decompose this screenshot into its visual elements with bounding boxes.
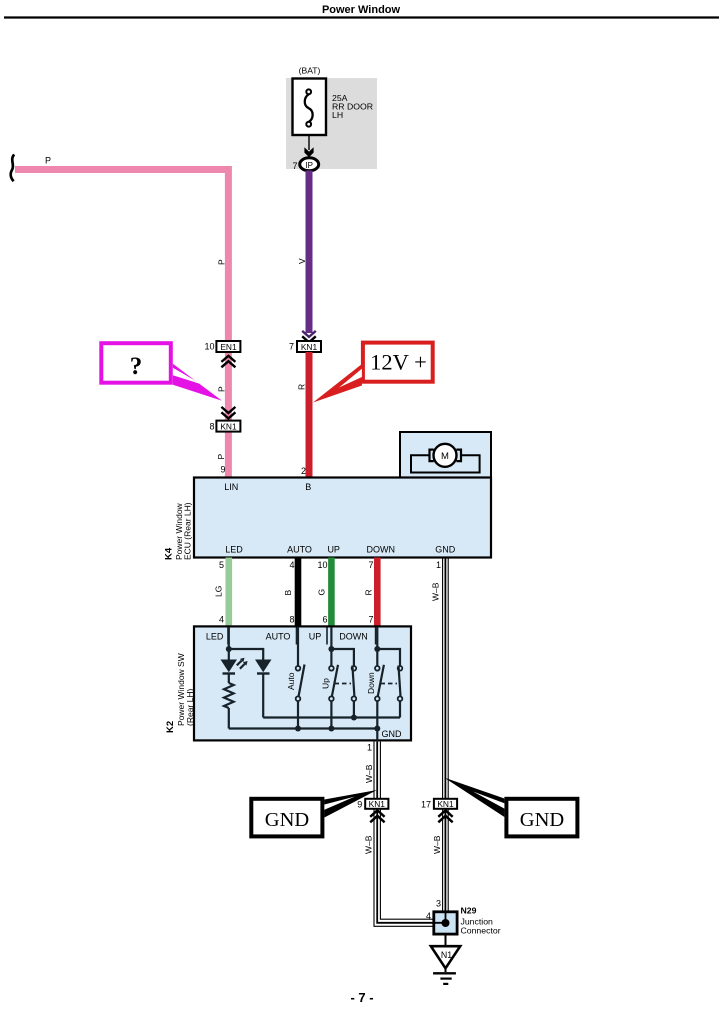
UP switch main bbox=[329, 666, 334, 671]
wire: fuse to IP connector bbox=[308, 135, 310, 150]
DOWN mechanical link (dashed) bbox=[381, 683, 398, 685]
node: DOWN to ground bus bbox=[374, 726, 380, 732]
svg-text:7: 7 bbox=[368, 560, 373, 570]
svg-text:3: 3 bbox=[436, 899, 441, 909]
svg-text:P: P bbox=[217, 259, 227, 265]
svg-text:GND: GND bbox=[382, 729, 403, 739]
N29 internal stripe wires bbox=[434, 912, 446, 923]
ground bus (line B) bbox=[229, 727, 377, 729]
node: LED branch junction bbox=[226, 646, 232, 652]
fuse element bbox=[306, 89, 311, 94]
connector chevrons below KN1 (left) bbox=[370, 810, 384, 822]
svg-text:K4: K4 bbox=[164, 547, 175, 560]
svg-text:R: R bbox=[297, 384, 307, 390]
svg-text:9: 9 bbox=[357, 800, 362, 810]
DOWN switch main bbox=[375, 666, 380, 671]
wire LED2 down to illumination bus bbox=[262, 674, 264, 718]
wire V (violet) from IP to KN1 bbox=[306, 171, 313, 334]
wire P (pink) horizontal + vertical run bbox=[15, 170, 228, 478]
motor brushes bbox=[430, 450, 434, 462]
LED D1 bbox=[221, 660, 238, 673]
arrow into IP connector bbox=[304, 147, 313, 157]
svg-text:P: P bbox=[216, 454, 226, 460]
callout box "12V +" (red) bbox=[363, 343, 433, 382]
svg-text:LIN: LIN bbox=[224, 482, 238, 492]
svg-text:7: 7 bbox=[292, 161, 297, 171]
wire resistor to bus bbox=[228, 708, 230, 729]
wire R (red) from KN1 to K4 pin 2 bbox=[306, 352, 313, 478]
svg-text:?: ? bbox=[130, 353, 143, 380]
svg-text:6: 6 bbox=[322, 615, 327, 625]
node: UP second contact to illumination bus bbox=[351, 715, 357, 721]
illumination bus (line A) bbox=[263, 716, 400, 718]
svg-text:4: 4 bbox=[219, 615, 224, 625]
callout box GND (left) bbox=[251, 799, 322, 837]
motor box (window motor) bbox=[400, 432, 491, 479]
node: N29 junction bbox=[442, 919, 450, 927]
svg-text:LED: LED bbox=[206, 632, 224, 642]
svg-text:W–B: W–B bbox=[363, 835, 373, 854]
svg-text:R: R bbox=[364, 589, 374, 595]
svg-text:GND: GND bbox=[435, 545, 456, 555]
svg-text:Auto: Auto bbox=[286, 672, 296, 690]
callout leader (left GND) bbox=[324, 790, 377, 818]
svg-text:Power Window: Power Window bbox=[322, 4, 401, 16]
switch K2 box bbox=[194, 626, 411, 740]
svg-text:AUTO: AUTO bbox=[287, 545, 312, 555]
DOWN switch second contact bbox=[398, 666, 403, 671]
connector chevrons below EN1 bbox=[221, 356, 235, 368]
svg-text:B: B bbox=[305, 482, 311, 492]
svg-text:1: 1 bbox=[367, 743, 372, 753]
junction connector N29 bbox=[434, 912, 457, 934]
UP second contact branch bbox=[331, 649, 354, 666]
wire W-B (white-black) from K4 GND pin1 down to KN1/N29 bbox=[442, 558, 444, 912]
K2 internal wire: branch to LED2 bbox=[229, 649, 263, 660]
connector IP (oval) bbox=[300, 158, 319, 171]
svg-text:EN1: EN1 bbox=[220, 342, 237, 352]
svg-text:LH: LH bbox=[332, 110, 343, 120]
svg-text:UP: UP bbox=[309, 632, 322, 642]
svg-text:17: 17 bbox=[421, 800, 431, 810]
motor wiring loop bbox=[411, 455, 480, 472]
svg-text:1: 1 bbox=[436, 560, 441, 570]
svg-text:KN1: KN1 bbox=[220, 421, 237, 431]
DOWN second contact branch bbox=[377, 649, 400, 666]
wire LED1 to resistor bbox=[228, 674, 230, 684]
fuse block background (IP junction block shading) bbox=[286, 78, 377, 169]
svg-text:10: 10 bbox=[317, 560, 327, 570]
svg-text:W–B: W–B bbox=[364, 764, 374, 783]
AUTO switch bbox=[296, 666, 301, 671]
callout box GND (right) bbox=[506, 799, 577, 837]
callout leader (right GND) bbox=[444, 778, 504, 818]
svg-text:M: M bbox=[441, 451, 449, 462]
node: UP to ground bus bbox=[328, 726, 334, 732]
node: DOWN branch bbox=[374, 646, 380, 652]
svg-text:7: 7 bbox=[289, 342, 294, 352]
svg-text:W–B: W–B bbox=[432, 835, 442, 854]
wire G (green) K4 pin10 to K2 pin6 bbox=[328, 558, 335, 627]
wire break squiggle at left margin bbox=[11, 155, 15, 182]
svg-text:K2: K2 bbox=[165, 721, 176, 733]
svg-text:KN1: KN1 bbox=[437, 799, 454, 809]
wire W-B from K2 GND to N29 pin 4 bbox=[374, 742, 434, 927]
svg-text:DOWN: DOWN bbox=[339, 632, 368, 642]
svg-text:12V +: 12V + bbox=[370, 350, 427, 375]
svg-text:KN1: KN1 bbox=[369, 799, 386, 809]
AUTO switch column wire bbox=[297, 627, 299, 666]
svg-text:AUTO: AUTO bbox=[266, 632, 291, 642]
svg-text:GND: GND bbox=[520, 809, 564, 831]
svg-text:KN1: KN1 bbox=[301, 342, 318, 352]
ground symbol bbox=[445, 968, 447, 972]
node: UP branch bbox=[328, 646, 334, 652]
svg-text:LED: LED bbox=[225, 545, 243, 555]
ECU K4 box bbox=[194, 478, 491, 558]
svg-text:G: G bbox=[317, 589, 327, 596]
K2 internal wire: LED column bbox=[228, 627, 230, 660]
wire N29 to ground point bbox=[445, 934, 447, 947]
svg-text:V: V bbox=[297, 258, 307, 264]
svg-text:Down: Down bbox=[366, 672, 376, 694]
connector chevrons above KN1 (pink) bbox=[221, 407, 235, 419]
svg-text:P: P bbox=[217, 386, 227, 392]
K2 internal GND wire bbox=[376, 729, 378, 741]
LED D2 bbox=[255, 660, 272, 673]
svg-text:P: P bbox=[45, 156, 51, 166]
svg-text:ECU (Rear LH): ECU (Rear LH) bbox=[183, 502, 193, 560]
svg-text:N1: N1 bbox=[441, 950, 452, 960]
wire LG (light green) K4 pin5 to K2 pin4 bbox=[226, 558, 233, 627]
svg-text:9: 9 bbox=[220, 465, 225, 475]
callout box "?" (magenta) bbox=[101, 343, 171, 383]
K2 cell divider lines bbox=[228, 628, 376, 645]
svg-text:7: 7 bbox=[368, 615, 373, 625]
svg-text:LG: LG bbox=[214, 586, 224, 597]
svg-text:(BAT): (BAT) bbox=[299, 66, 321, 76]
svg-text:IP: IP bbox=[305, 161, 313, 170]
svg-text:DOWN: DOWN bbox=[367, 545, 396, 555]
svg-text:8: 8 bbox=[209, 422, 214, 432]
svg-text:4: 4 bbox=[289, 560, 294, 570]
UP switch column wire bbox=[330, 627, 332, 666]
UP mechanical link (dashed) bbox=[335, 683, 352, 685]
svg-text:W–B: W–B bbox=[431, 582, 441, 601]
svg-text:10: 10 bbox=[204, 342, 214, 352]
motor M bbox=[434, 444, 457, 467]
connector chevrons above KN1 (violet) bbox=[302, 331, 316, 337]
svg-text:B: B bbox=[283, 590, 293, 596]
svg-text:- 7 -: - 7 - bbox=[350, 990, 373, 1005]
svg-text:(Rear LH): (Rear LH) bbox=[185, 689, 195, 726]
node: AUTO to ground bus bbox=[295, 726, 301, 732]
wire R (red) K4 pin7 to K2 pin7 bbox=[374, 558, 381, 627]
svg-text:8: 8 bbox=[289, 615, 294, 625]
svg-text:Up: Up bbox=[321, 678, 331, 689]
callout leader (red) bbox=[313, 364, 362, 403]
svg-text:4: 4 bbox=[426, 911, 431, 921]
svg-text:N29: N29 bbox=[461, 906, 477, 916]
callout leader (magenta) bbox=[173, 364, 222, 401]
UP switch second contact bbox=[352, 666, 357, 671]
svg-text:UP: UP bbox=[327, 545, 340, 555]
wire B (black) K4 pin4 to K2 pin8 bbox=[295, 558, 302, 627]
svg-text:5: 5 bbox=[219, 560, 224, 570]
svg-text:2: 2 bbox=[301, 466, 306, 476]
svg-text:GND: GND bbox=[265, 809, 309, 831]
LED D1 emission arrows bbox=[237, 661, 242, 666]
DOWN switch column wire bbox=[376, 627, 378, 666]
resistor (LED series) bbox=[224, 683, 234, 708]
fuse F 25A RR DOOR LH : outline box bbox=[293, 79, 327, 136]
connector chevrons below KN1 (right) bbox=[438, 810, 452, 822]
ground point N1 (triangle) bbox=[431, 946, 460, 968]
header rule bbox=[4, 16, 719, 18]
svg-text:Connector: Connector bbox=[461, 926, 501, 936]
